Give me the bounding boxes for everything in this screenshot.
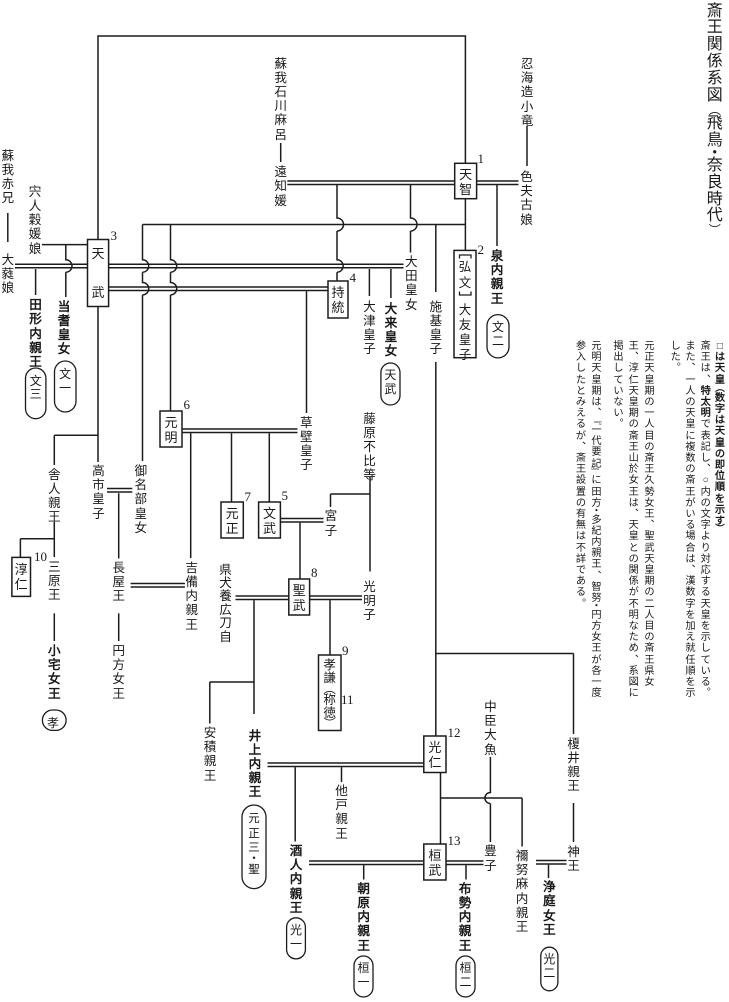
bracket ] below Kobun label: [460, 292, 472, 296]
node: Soga-no-Ishikawamaro: [274, 57, 288, 142]
wire: Shiki-no-miko long line down to Konin(12), branch rail to Enoi-shinno: [436, 362, 574, 736]
saio oval: Gensho-3/Sho (for Inoue-naishinno): [242, 805, 266, 889]
wire: Nagaya-o to Madokata-joo: [118, 613, 120, 641]
number 1 (Tenji): [478, 152, 485, 165]
number 10 (Junnin): [34, 550, 47, 563]
wire: Shishihito-no-Kajihime to Tenmu: [42, 244, 88, 246]
marriage double line: Monmu(5) = Miyako: [280, 518, 323, 520]
wire: drop to Kiyoniwa-joo: [548, 865, 550, 878]
legend col8: [590, 341, 602, 699]
number 12 (Konin): [448, 726, 461, 739]
emperor box: Gensho (7): [221, 502, 243, 538]
node: Osabe-shinno: [335, 784, 349, 841]
node: Takechi-no-miko: [91, 464, 105, 521]
node: Komyoshi: [362, 580, 376, 623]
emperor box: Kanmu (13): [424, 844, 446, 880]
wire: drop to Nagaya-o: [118, 493, 120, 558]
legend col6: [628, 341, 640, 700]
node: Agatainukai-no-Hirotoji: [219, 564, 233, 644]
marriage double line: Agatainukai-no-Hirotoji = Shomu(8): [236, 595, 289, 597]
node: Nenoma-naishinno: [515, 849, 529, 934]
number 3 (Tenmu): [111, 229, 118, 242]
wire: drop to Kibi-naishinno: [190, 433, 192, 558]
legend col3: [684, 341, 696, 700]
box label: Otomo-no-miko: [458, 303, 472, 364]
node: Mihara-o: [47, 560, 61, 603]
wire: drop to Koken(9): [329, 600, 331, 654]
box label: Kobun 弘文: [458, 260, 472, 292]
number 7 (Gensho): [245, 490, 252, 503]
wire: drop to Sakahito-naishinno: [294, 767, 296, 841]
number 11 (Shotoku): [341, 693, 354, 706]
wire: Oshinumi-no-miyatsuko-Kotatsu to Shikobuko-no-iratsume: [526, 126, 528, 166]
emperor box: Shomu (8): [289, 579, 310, 615]
wire: drop to Oku-no-himemiko: [390, 269, 392, 298]
node: Shiki-no-miko: [429, 300, 443, 357]
oval label: Ko-2: [542, 953, 556, 980]
saio oval: Ko-1 (for Sakahito-naishinno): [287, 918, 306, 959]
emperor box: Koken (9) / Shotoku (11): [319, 655, 342, 731]
emperor box: Tenji (1): [455, 163, 477, 198]
wire: drop to Gensho(7): [231, 433, 233, 501]
oval label: Mon-1: [58, 368, 72, 395]
node: Inoue-naishinno (saio): [248, 729, 262, 800]
node: Asaka-shinno: [203, 726, 217, 783]
number 4 (Jito): [350, 271, 357, 284]
box label: Junnin: [14, 562, 28, 593]
number 9 (Koken): [342, 644, 349, 657]
marriage double line: Tenji = Shikobuko-no-iratsume: [477, 180, 519, 182]
wire: Ochi-no-iratsume line down to Ota-no-himemiko: [411, 185, 418, 253]
legend col7: [612, 341, 624, 431]
node: Oonu-no-iratsume: [1, 253, 15, 296]
emperor box: Kobun (2) / Otomo-no-miko: [454, 250, 476, 357]
bracket [ above Kobun label: [460, 255, 472, 259]
marriage double line: Shomu(8) = Komyoshi: [310, 595, 362, 597]
saio oval: Ko (for Oyake-joo): [42, 710, 66, 730]
node: Fujiwara-no-Fuhito: [363, 412, 377, 483]
marriage double line: Nagaya-o = Kibi-naishinno: [131, 583, 185, 585]
marriage double line: Tenmu = Ota-no-himemiko: [109, 263, 404, 265]
number 6 (Genmei): [184, 398, 191, 411]
node: Kami-o: [567, 845, 581, 873]
box label: Genmei: [164, 415, 178, 446]
wire: drop to Osabe-shinno: [341, 767, 343, 782]
wire: top rail joining Tenmu(3) and Tenji(1): [98, 36, 465, 240]
wire: drop to Shomu(8): [299, 523, 301, 579]
wire: drop to Izumi-naishinno: [496, 185, 498, 247]
box label: Konin: [428, 740, 442, 771]
wire: Tenmu descendants rail to Toneri and Takechi: [54, 307, 98, 466]
saio oval: Mon-2 (for Izumi-naishinno): [487, 315, 509, 358]
legend col1: [714, 341, 726, 534]
node: Kusakabe-no-miko: [299, 416, 313, 473]
node: Enoi-shinno: [567, 737, 581, 794]
saio oval: Mon-1 (for Taki-no-himemiko): [55, 361, 77, 412]
oval label: Ko (for Oyake-joo): [47, 714, 59, 731]
number 5 (Monmu): [282, 489, 289, 502]
wire: drop to Monmu(5): [268, 433, 270, 502]
node: Toneri-shinno: [47, 468, 61, 525]
number 8 (Shomu): [311, 566, 318, 579]
node: Kibi-naishinno: [185, 561, 199, 632]
box label: Kanmu: [428, 848, 442, 879]
emperor box: Junnin (10): [12, 557, 31, 596]
wire: Hirotoji line down to Inoue-naishinno with branch to Asaka-shinno: [210, 600, 254, 723]
wire: drop to Taki-no-himemiko (crosses marriage line): [66, 245, 72, 297]
node: Oku-no-himemiko (saio): [384, 302, 398, 359]
number 2 (Kobun): [478, 243, 485, 256]
number 13 (Kanmu): [448, 834, 461, 847]
wire: Soga-no-Ishikawamaro to Ochi-no-iratsume: [280, 143, 282, 162]
saio oval: Kan-2 (for Fuse-naishinno): [456, 956, 475, 997]
legend col2: [700, 341, 712, 700]
box label: Monmu: [263, 506, 277, 537]
node: Shikobuko-no-iratsume: [520, 170, 534, 227]
node: Miyako: [324, 509, 338, 537]
marriage double line: Kami-o =: [536, 860, 567, 862]
node: Ota-no-himemiko: [404, 255, 418, 312]
wire: Konin(12) down to Kanmu(13), branch rail to Nenoma-naishinno: [441, 773, 523, 847]
oval label: Kan-1: [357, 962, 371, 989]
marriage double line: Tenmu = Jito: [109, 286, 328, 288]
box label: Tenji: [459, 167, 473, 197]
marriage double line: Kanmu(13) = Toyoko: [446, 860, 484, 862]
title: 斎王関係系図（飛鳥・奈良時代）: [705, 4, 724, 237]
wire: Fujiwara-no-Fuhito down to Komyoshi with branch to Miyako: [331, 477, 371, 572]
emperor box: Jito (4): [328, 281, 348, 318]
box label: Koken (Shotoku): [323, 659, 337, 729]
oval label: Ko-1: [289, 924, 303, 951]
box label: Jito: [331, 285, 345, 316]
node: Izumi-naishinno (saio): [490, 249, 504, 306]
emperor box: Tenmu (3): [88, 240, 109, 307]
wire: drop to Genmei(6) (crosses marriage lines): [171, 225, 177, 412]
wire: Enoi-shinno to Kami-o: [573, 803, 575, 842]
emperor box: Genmei (6): [160, 411, 182, 447]
node: Oyake-joo (saio): [47, 644, 61, 701]
wire: Nakatomi-no-Ouo to Toyoko (hops Konin rail): [485, 757, 491, 842]
box label: Tenmu: [91, 234, 105, 312]
node: Sakahito-naishinno (saio): [289, 844, 303, 915]
legend col4: [670, 341, 682, 375]
marriage double line: Ochi-no-iratsume = Tenji: [287, 180, 454, 182]
wire: Soga-no-Akae to Oonu-no-iratsume: [7, 213, 9, 242]
emperor box: Konin (12): [424, 736, 446, 773]
node: Madokata-joo: [112, 644, 126, 701]
node: Otsu-no-miko: [362, 300, 376, 357]
saio oval: Kan-1 (for Asahara-naishinno): [354, 956, 373, 997]
oval label: Gensho-3/Sho: [247, 812, 261, 877]
box label: Gensho: [225, 506, 239, 537]
wire: drop to Otsu-no-miko: [368, 269, 370, 296]
marriage double line: Oonu-no-iratsume = Tenmu: [15, 263, 88, 265]
node: Nagaya-o: [112, 561, 126, 604]
node: Kiyoniwa-joo (saio): [542, 880, 556, 937]
box label: Shomu: [292, 583, 306, 614]
node: Takata-naishinno (saio): [29, 298, 43, 369]
marriage double line: Takechi-no-miko = Minabe-no-himemiko: [107, 488, 132, 490]
node: Ochi-no-hime: [274, 165, 288, 208]
saio oval: Tenmu (for Oku-no-himemiko): [381, 363, 400, 405]
node: Taki-no-himemiko (saio): [57, 300, 71, 357]
wire: Mihara-o to Oyake-joo: [53, 613, 55, 641]
node: Toyoko: [483, 844, 497, 872]
node: Oshinumi-no-miyatsuko-Kotatsu: [520, 57, 534, 128]
saio oval: Mon-3 (for Takata-naishinno): [26, 368, 46, 419]
oval label: Mon-3: [29, 375, 43, 402]
node: Minabe-no-himemiko: [134, 464, 148, 535]
oval label: Kan-2: [459, 962, 473, 989]
wire: Tenmu=Jito down to Kusakabe-no-miko: [306, 291, 308, 413]
wire: drop to Shiki-no-miko: [435, 225, 437, 293]
node: Soga-no-Akae: [1, 149, 15, 206]
wire: drop to Minabe-no-himemiko (crosses marriage lines): [143, 225, 149, 462]
wire: Tenji down to Kobun(2): [464, 199, 466, 250]
marriage double line: Genmei(6) = Kusakabe-no-miko: [182, 428, 298, 430]
legend col5: [643, 341, 655, 688]
oval label: Tenmu: [383, 369, 397, 396]
node: Asahara-naishinno (saio): [357, 882, 371, 953]
node: Fuse-naishinno (saio): [458, 882, 472, 953]
oval label: Mon-2: [491, 321, 505, 348]
wire: drop to Takata-naishinno: [35, 269, 37, 295]
wire: Toneri-shinno down to Mihara-o and branch to Junnin(10): [20, 522, 54, 558]
marriage double line: Inoue-naishinno = Konin(12): [268, 762, 424, 764]
node: Shishihito-no-Kajihime: [28, 185, 42, 256]
wire: Tenji children rail: [143, 224, 466, 226]
wire: drop to Asahara-naishinno: [363, 865, 365, 879]
node: Nakatomi-no-Ouo: [483, 700, 497, 757]
wire: drop to Fuse-naishinno: [465, 865, 467, 879]
marriage double line: Sakahito-naishinno = Kanmu(13): [309, 860, 424, 862]
saio oval: Ko-2 (for Kiyoniwa-joo): [541, 947, 558, 991]
wire: Ochi-no-iratsume line down to Jito(4): [337, 185, 344, 282]
emperor box: Monmu (5): [259, 502, 281, 538]
legend col9: [575, 341, 587, 610]
